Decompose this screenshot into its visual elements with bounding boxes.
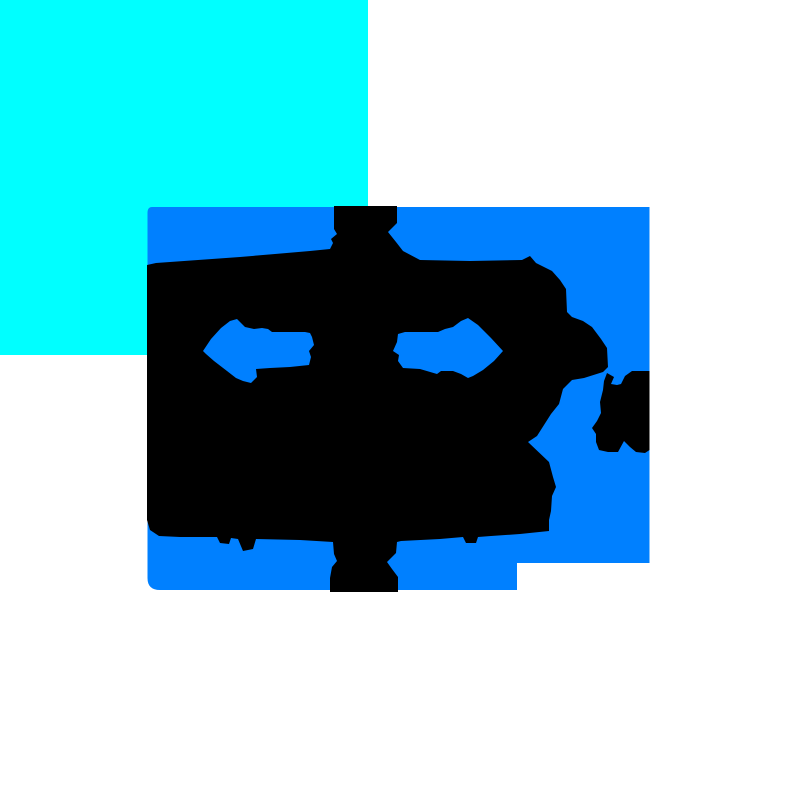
black blob with up/down arrow bands <box>147 206 608 592</box>
blue rounded panel <box>148 207 650 590</box>
black piece right <box>592 371 650 453</box>
left blue arrow <box>203 319 314 383</box>
right blue arrow <box>393 318 503 378</box>
cyan square <box>0 0 368 355</box>
